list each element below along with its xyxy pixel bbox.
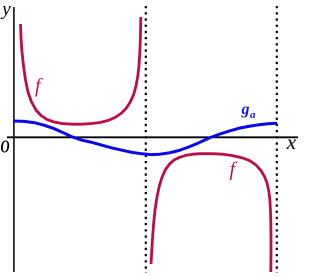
svg-text:y: y xyxy=(0,0,11,20)
x-axis xyxy=(7,136,298,138)
curve g_a (blue) xyxy=(13,121,277,155)
curve f upper-left branch xyxy=(21,17,141,124)
svg-text:g: g xyxy=(241,101,250,118)
svg-text:O: O xyxy=(1,138,10,158)
svg-text:x: x xyxy=(286,130,297,154)
y-axis xyxy=(13,7,15,272)
svg-text:a: a xyxy=(250,109,256,121)
asymptote dotted line left xyxy=(145,6,147,273)
asymptote dotted line right xyxy=(276,6,278,273)
curve f lower-right branch xyxy=(151,154,271,272)
